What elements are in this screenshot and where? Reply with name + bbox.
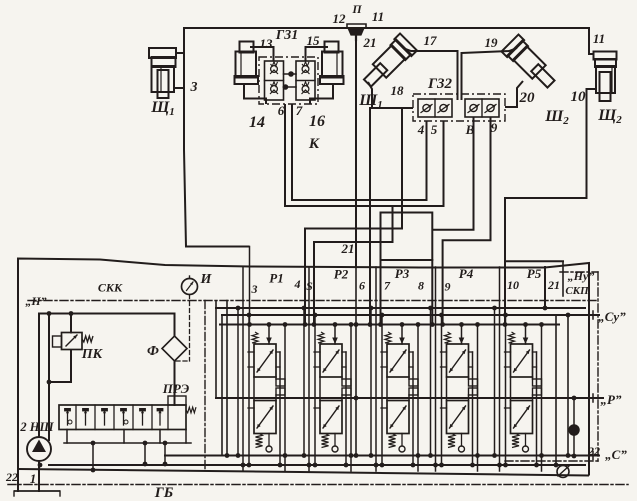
svg-text:17: 17: [424, 33, 438, 48]
valve Р5 mid tabs: [533, 379, 542, 386]
svg-text:13: 13: [260, 36, 274, 51]
wire cyl13 bottom to block: [244, 84, 266, 104]
svg-text:4: 4: [294, 277, 301, 291]
cylinder Щ2: [594, 52, 617, 60]
wire collector drain A: [49, 464, 585, 466]
wire ГЗ1 right port to ГЗ2 valve4: [292, 104, 427, 200]
svg-text:„Ну”: „Ну”: [568, 269, 595, 283]
svg-text:5: 5: [431, 122, 438, 137]
wire pipe 7-8 link: [381, 259, 433, 261]
wire Щ1 top port: [176, 52, 184, 54]
svg-text:3: 3: [251, 282, 258, 296]
wire collector upper: [216, 307, 585, 309]
check valve (filled) right: [569, 425, 579, 435]
valve Р4 upper body: [447, 344, 469, 377]
svg-text:ПРЭ: ПРЭ: [162, 381, 190, 396]
wire ПК top: [70, 314, 72, 333]
wire pump case drain line: [48, 314, 50, 441]
wire cyl13 top to block: [250, 47, 274, 61]
svg-text:3: 3: [190, 80, 198, 95]
valve Р1 riser: [268, 325, 270, 345]
svg-text:21: 21: [363, 35, 377, 50]
svg-text:14: 14: [249, 114, 265, 131]
valve Р1 pilot spring: [252, 332, 258, 343]
wire collector upper left drop: [215, 301, 217, 398]
svg-text:СКК: СКК: [98, 281, 123, 295]
svg-text:Ф: Ф: [147, 344, 159, 359]
cylinder Ш2 actuator (tilted): [502, 35, 560, 93]
cylinder 13: [240, 42, 254, 53]
valve Р5 pilot spring: [509, 332, 515, 343]
valve Р4 mid tabs: [469, 379, 478, 386]
svg-text:1: 1: [30, 471, 37, 486]
wire pipe 9 staircase: [443, 117, 491, 325]
svg-text:20: 20: [519, 90, 536, 106]
wire collector Сy: [222, 314, 599, 316]
wire top manifold line: [184, 27, 589, 29]
wire ПК drain: [49, 350, 71, 383]
block ГЗ2 boundary: [413, 94, 505, 121]
boundary dash-dot across box: [28, 300, 598, 302]
svg-text:11: 11: [593, 31, 605, 46]
svg-text:12: 12: [333, 11, 347, 26]
svg-text:7: 7: [384, 279, 391, 293]
valve Р3 side pipes: [381, 315, 383, 465]
valve Р2 riser: [334, 325, 336, 345]
wire pipe 6 vertical: [369, 108, 371, 325]
svg-text:10: 10: [571, 89, 587, 105]
valve Р4 pilot spring: [445, 332, 451, 343]
check valve bottom right: [557, 466, 569, 478]
wire cyl15 top to block: [306, 47, 329, 61]
wire П line inside box: [355, 264, 357, 456]
fitting П (tee connector): [347, 24, 366, 28]
wire pipe10 inner: [504, 198, 506, 325]
valve Р5 riser: [525, 325, 527, 345]
svg-text:„Сy”: „Сy”: [598, 309, 626, 324]
svg-text:Г31: Г31: [275, 28, 298, 43]
svg-text:ГБ: ГБ: [154, 485, 174, 501]
valve pair ГЗ2 left (4,5): [418, 99, 452, 117]
boundary СКК (dash-dot): [204, 301, 206, 470]
block ГЗ1 boundary: [259, 57, 318, 104]
wire box left edge down: [17, 469, 19, 491]
svg-text:15: 15: [307, 33, 321, 48]
svg-text:ПК: ПК: [81, 347, 104, 362]
wire pump suction: [38, 461, 40, 491]
svg-text:Р4: Р4: [459, 266, 474, 281]
svg-text:22: 22: [587, 444, 600, 458]
cylinder Ш1 (tilted): [359, 34, 417, 92]
svg-text:4: 4: [417, 122, 425, 137]
gauge И (manometer): [182, 279, 198, 295]
wire left riser pipe 3: [184, 28, 250, 247]
svg-text:К: К: [308, 136, 320, 152]
wire box bottom inner: [38, 463, 43, 468]
block ПРЭ: [59, 405, 186, 430]
valve Р1 mid tabs: [276, 379, 285, 386]
wire gauge dashed: [189, 295, 191, 362]
valve Р3 lower body: [387, 401, 409, 434]
wire pipe right extra: [555, 315, 557, 465]
wire collector Сy left drop: [221, 315, 223, 456]
valve Р3 mid tabs: [409, 379, 418, 386]
wire Щ2 bottom port: [505, 89, 596, 198]
filter Ф: [162, 336, 187, 361]
wire cyl15 bottom to block: [310, 84, 333, 104]
tank connection bracket: [14, 490, 60, 492]
wire left drop 227: [226, 301, 228, 456]
wire ГЗ1 left port to ГЗ2 valve5: [285, 104, 444, 206]
frame distributor box: [18, 259, 589, 476]
wire pump pressure riser: [39, 314, 175, 438]
valve Р1 side pipes: [248, 315, 250, 465]
svg-text:„Р”: „Р”: [601, 392, 622, 407]
cylinder Щ1: [149, 48, 176, 58]
valve Р2 pilot spring: [318, 332, 324, 343]
wire П line 21 down: [355, 40, 357, 267]
valve Р5 lower body: [511, 401, 533, 434]
pump НШ: [27, 437, 51, 461]
valve Р3 riser: [401, 325, 403, 345]
svg-text:18: 18: [391, 83, 405, 98]
valve Р2 side pipes: [314, 315, 316, 465]
wire collector Р: [216, 397, 603, 399]
boundary tank ГБ (dash-dot): [8, 484, 628, 486]
wire pipe 8 staircase: [432, 117, 473, 230]
valve body ГЗ1 right: [296, 61, 315, 100]
valve ПК (relief): [62, 333, 83, 350]
valve Р2 lower body: [320, 401, 342, 434]
cylinder 15: [325, 42, 339, 53]
valve Р2 return spring: [322, 434, 329, 448]
svg-text:11: 11: [372, 9, 384, 24]
block ПРЭ symbols: [67, 410, 69, 425]
valve Р5 side pipes: [505, 315, 507, 465]
valve body ГЗ1 left: [265, 61, 284, 100]
svg-text:16: 16: [309, 113, 325, 130]
wire pipe 7 staircase: [381, 212, 433, 214]
svg-text:Р2: Р2: [334, 267, 349, 282]
svg-text:6: 6: [278, 103, 285, 118]
boundary СКП (dash-dot): [560, 271, 598, 273]
block ПРЭ solenoid box: [168, 396, 186, 405]
node ГЗ1 lower junction: [283, 84, 289, 90]
svg-text:22: 22: [5, 470, 18, 484]
node riser-ПК tee: [69, 311, 74, 316]
valve Р4 side pipes: [441, 315, 443, 465]
valve Р3 upper body: [387, 344, 409, 377]
valve Р3 return spring: [389, 434, 396, 448]
valve Р4 lower body: [447, 401, 469, 434]
svg-text:„С”: „С”: [605, 447, 627, 462]
valve Р1 upper body: [254, 344, 276, 377]
wire line 20: [505, 81, 523, 107]
wire line 19: [462, 48, 518, 53]
separator Ну notch: [562, 261, 564, 296]
valve Р2 upper body: [320, 344, 342, 377]
wire entry pipe 3: [249, 247, 251, 325]
svg-text:19: 19: [485, 35, 499, 50]
valve Р1 lower body: [254, 401, 276, 434]
wire pipe 5 staircase: [314, 206, 393, 325]
wire pipe НуСКП vertical: [567, 315, 569, 456]
svg-text:Р3: Р3: [395, 266, 410, 281]
valve Р4 riser: [461, 325, 463, 345]
svg-text:10: 10: [507, 278, 519, 292]
svg-text:9: 9: [445, 280, 451, 294]
svg-text:7: 7: [296, 103, 303, 118]
svg-text:21: 21: [547, 278, 560, 292]
wire ПРЭ drains: [64, 442, 191, 444]
svg-text:8: 8: [418, 279, 424, 293]
check valve symbols ГЗ1 right: [302, 66, 309, 73]
svg-text:21: 21: [341, 241, 355, 256]
valve Р5 return spring: [512, 434, 519, 448]
valve Р2 mid tabs: [342, 379, 351, 386]
wire line 17: [403, 48, 458, 51]
check valve symbols ГЗ1 left: [271, 66, 278, 73]
valve Р3 pilot spring: [385, 332, 391, 343]
svg-text:И: И: [200, 272, 213, 287]
valve Р4 return spring: [448, 434, 455, 448]
valve pair ГЗ2 right (В,9): [465, 99, 499, 117]
svg-text:6: 6: [359, 279, 365, 293]
wire pipe 4 staircase: [305, 108, 402, 325]
wire collector feed: [220, 324, 559, 326]
svg-text:Р5: Р5: [527, 266, 542, 281]
svg-text:СКП: СКП: [565, 285, 589, 297]
svg-text:9: 9: [491, 120, 498, 135]
node ГЗ1 upper junction: [288, 71, 294, 77]
wire ГЗ1 internal: [284, 73, 297, 75]
svg-text:Г32: Г32: [427, 76, 453, 92]
svg-text:Р1: Р1: [269, 271, 283, 286]
wire pipe21 inner: [544, 267, 546, 308]
valve Р1 return spring: [256, 434, 263, 448]
wire Щ2 top feed: [589, 28, 594, 54]
wire Щ1 bottom port: [174, 87, 184, 89]
svg-text:П: П: [351, 2, 362, 16]
wire collector С: [165, 455, 599, 457]
valve Р5 upper body: [511, 344, 533, 377]
wire Ну link: [505, 260, 563, 262]
wire line 18: [368, 82, 413, 108]
